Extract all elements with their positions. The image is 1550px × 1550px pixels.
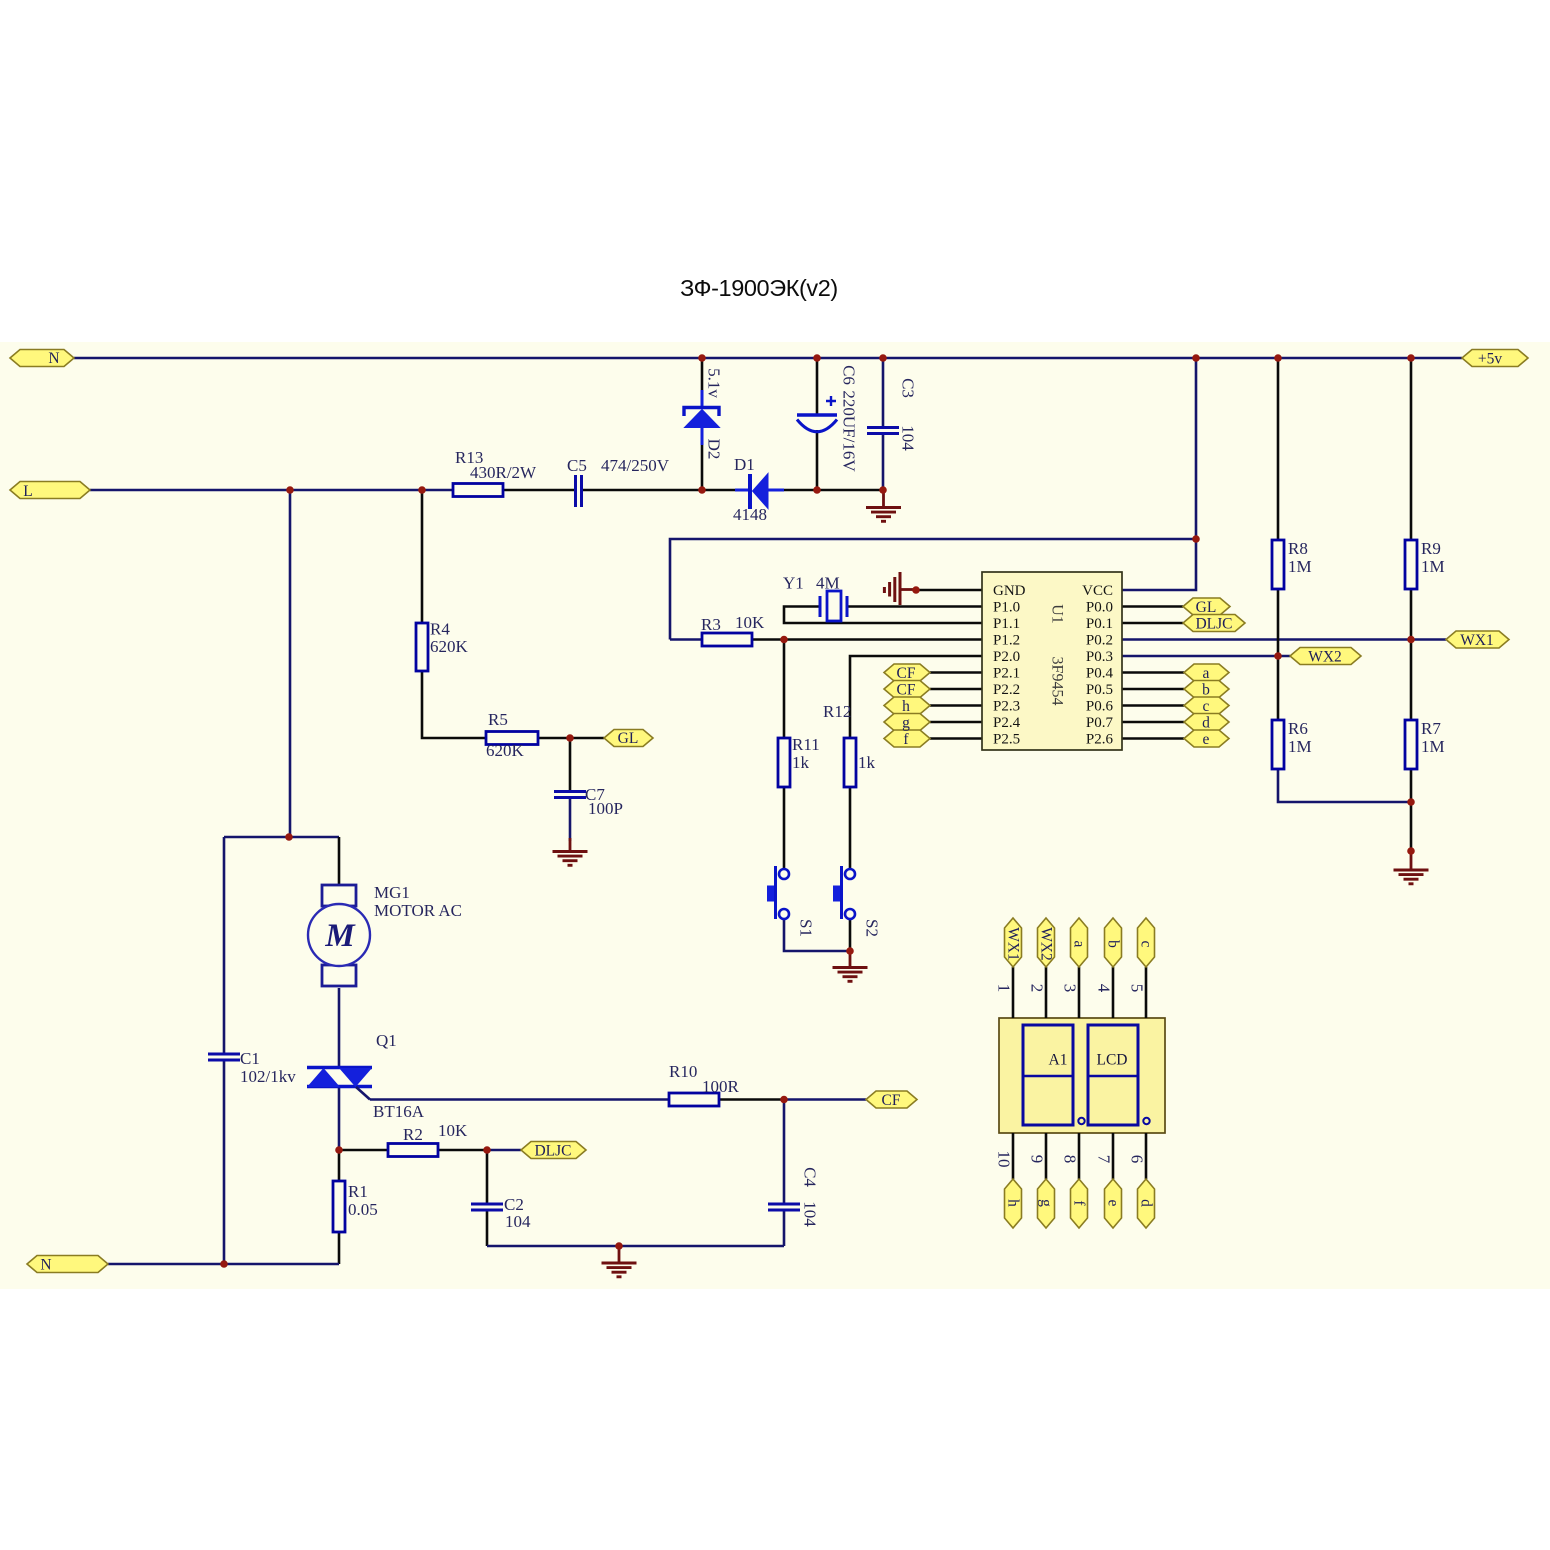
- capacitor C6 polarized: [797, 396, 837, 432]
- svg-text:VCC: VCC: [1082, 583, 1113, 599]
- svg-text:P0.3: P0.3: [1086, 649, 1113, 665]
- junction at R6 R7 bottom: [1407, 798, 1415, 806]
- node d flag: [1184, 714, 1229, 731]
- node WX1 flag: [1446, 631, 1509, 648]
- node b flag: [1184, 681, 1229, 698]
- wire +5v drop to VCC: [1122, 358, 1196, 590]
- node GL flag left: [604, 730, 653, 747]
- svg-text:P0.5: P0.5: [1086, 682, 1113, 698]
- node f flag left: [884, 730, 930, 747]
- junction on L rail at motor branch: [286, 486, 294, 494]
- svg-text:a: a: [1203, 665, 1210, 682]
- svg-text:MOTOR AC: MOTOR AC: [374, 901, 462, 920]
- junction at triac R2 node: [335, 1146, 343, 1154]
- svg-text:5.1v: 5.1v: [705, 368, 724, 398]
- svg-text:+5v: +5v: [1478, 351, 1502, 368]
- label R1: [348, 1182, 378, 1219]
- wire R3 to P1.2: [752, 638, 982, 641]
- node GL flag right: [1183, 598, 1230, 615]
- wire N bottom line: [108, 1263, 339, 1266]
- pin number 10 rotated: [995, 1151, 1014, 1168]
- wire f stub: [930, 737, 982, 740]
- node f flag bottom of LCD: [1071, 1179, 1088, 1228]
- svg-text:c: c: [1138, 941, 1155, 948]
- svg-text:P1.2: P1.2: [993, 633, 1020, 649]
- svg-text:WX2: WX2: [1308, 649, 1342, 666]
- svg-text:10K: 10K: [438, 1121, 468, 1140]
- wire d stub: [1122, 721, 1184, 724]
- svg-text:104: 104: [899, 425, 918, 451]
- wire R8 column: [1277, 358, 1280, 720]
- wire L down to motor branch: [289, 490, 292, 837]
- svg-text:g: g: [902, 715, 910, 732]
- svg-text:M: M: [324, 918, 356, 954]
- node h flag bottom of LCD: [1005, 1179, 1022, 1228]
- wire node to R1: [338, 1150, 341, 1181]
- svg-text:1M: 1M: [1421, 557, 1445, 576]
- label A1: [1049, 1052, 1068, 1069]
- svg-text:R11: R11: [792, 735, 820, 754]
- svg-text:f: f: [1071, 1200, 1088, 1206]
- node h flag left: [884, 697, 930, 714]
- wire triac gate to R10: [370, 1098, 669, 1101]
- svg-text:e: e: [1203, 731, 1210, 748]
- svg-text:5: 5: [1128, 984, 1147, 993]
- node g flag bottom of LCD: [1038, 1179, 1055, 1228]
- ground under R7: [1394, 851, 1429, 884]
- svg-text:U1: U1: [1049, 604, 1066, 624]
- wire C5 to D1 node: [583, 489, 748, 492]
- resistor R5: [486, 732, 538, 745]
- svg-text:R3: R3: [701, 615, 721, 634]
- flag texts horizontal: [23, 350, 1502, 1274]
- label R5: [486, 710, 525, 760]
- svg-text:102/1kv: 102/1kv: [240, 1067, 296, 1086]
- svg-text:4: 4: [1095, 984, 1114, 993]
- svg-text:3: 3: [1061, 984, 1080, 993]
- ground under C7: [553, 838, 588, 865]
- svg-text:4148: 4148: [733, 505, 767, 524]
- junction at GL C7 node: [566, 734, 574, 742]
- svg-text:C3: C3: [899, 378, 918, 398]
- svg-text:100R: 100R: [702, 1077, 740, 1096]
- svg-text:100P: 100P: [588, 799, 623, 818]
- capacitor C4: [768, 1204, 800, 1210]
- U1 value 3F9454 rotated: [1049, 657, 1066, 706]
- wire h stub: [930, 704, 982, 707]
- wire R11 to S1: [783, 787, 786, 868]
- wire motor to triac: [338, 988, 341, 1066]
- svg-text:C4: C4: [801, 1167, 820, 1187]
- wire a stub: [1122, 671, 1184, 674]
- label Q1: [373, 1031, 425, 1121]
- node WX2 flag top of LCD: [1038, 918, 1055, 967]
- wire CF stub upper: [930, 671, 982, 674]
- capacitor C1: [208, 1054, 240, 1060]
- svg-text:2: 2: [1028, 984, 1047, 993]
- svg-text:R2: R2: [403, 1125, 423, 1144]
- junction at R3 R11 node: [780, 636, 788, 644]
- label D2 rotated: [705, 368, 724, 459]
- svg-text:104: 104: [801, 1201, 820, 1227]
- capacitor C2: [471, 1204, 503, 1210]
- svg-text:1M: 1M: [1288, 737, 1312, 756]
- wire GND pin: [916, 589, 982, 592]
- wire R4 to R5: [422, 671, 486, 738]
- junction at motor branch top: [285, 833, 293, 841]
- label C1: [240, 1049, 296, 1086]
- junction on N rail at R8: [1274, 354, 1282, 362]
- node CF flag at P2.2: [884, 681, 930, 698]
- label R9: [1421, 539, 1445, 576]
- label S1 rotated: [797, 919, 816, 937]
- junction at C2 DLJC node: [483, 1146, 491, 1154]
- svg-text:9: 9: [1028, 1155, 1047, 1164]
- label C4 rotated: [801, 1167, 820, 1227]
- wire L rail: [90, 489, 453, 492]
- svg-text:b: b: [1202, 682, 1210, 699]
- svg-text:3F9454: 3F9454: [1049, 657, 1066, 706]
- svg-text:P2.0: P2.0: [993, 649, 1020, 665]
- svg-text:4M: 4M: [816, 574, 840, 593]
- svg-text:R5: R5: [488, 710, 508, 729]
- junction on L rail at R4: [418, 486, 426, 494]
- node DLJC flag right: [1183, 615, 1245, 632]
- wire P0.3 to WX2: [1122, 655, 1290, 658]
- svg-text:R1: R1: [348, 1182, 368, 1201]
- wire C1 branch: [223, 837, 226, 1264]
- svg-text:P1.1: P1.1: [993, 616, 1020, 632]
- wire D2 vertical branch: [701, 358, 704, 490]
- label R7: [1421, 719, 1445, 756]
- svg-text:C6: C6: [840, 365, 859, 385]
- svg-text:GND: GND: [993, 583, 1026, 599]
- junction at bottom ground: [615, 1242, 623, 1250]
- svg-text:P0.1: P0.1: [1086, 616, 1113, 632]
- wire R12 to S2: [849, 787, 852, 868]
- svg-text:P2.3: P2.3: [993, 699, 1020, 715]
- svg-text:R4: R4: [430, 620, 450, 639]
- svg-text:GL: GL: [1196, 599, 1217, 616]
- wire g stub: [930, 721, 982, 724]
- node e flag bottom of LCD: [1105, 1179, 1122, 1228]
- resistor R8: [1272, 540, 1284, 589]
- svg-text:1k: 1k: [792, 753, 810, 772]
- svg-text:220UF/16V: 220UF/16V: [840, 390, 859, 472]
- svg-text:1M: 1M: [1421, 737, 1445, 756]
- svg-text:430R/2W: 430R/2W: [470, 463, 537, 482]
- svg-text:CF: CF: [897, 665, 916, 682]
- label R12: [823, 702, 876, 772]
- wire crystal right to P1.0: [847, 605, 982, 608]
- wire CF stub lower: [930, 688, 982, 691]
- svg-text:P2.1: P2.1: [993, 666, 1020, 682]
- svg-text:8: 8: [1061, 1155, 1080, 1164]
- svg-text:h: h: [902, 698, 910, 715]
- ground at GND pin rotated: [884, 572, 916, 605]
- svg-text:C5: C5: [567, 456, 587, 475]
- label R10: [669, 1062, 740, 1096]
- resistor R11: [778, 738, 790, 787]
- node c flag: [1184, 697, 1229, 714]
- svg-text:P2.6: P2.6: [1086, 732, 1114, 748]
- wire R13 to C5: [503, 489, 574, 492]
- pin number 2 rotated: [1028, 984, 1047, 993]
- svg-text:b: b: [1105, 940, 1122, 948]
- svg-text:S1: S1: [797, 919, 816, 937]
- label LCD: [1097, 1052, 1128, 1069]
- wire C2 vertical: [486, 1150, 489, 1246]
- resistor R9: [1405, 540, 1417, 589]
- svg-text:P2.4: P2.4: [993, 715, 1021, 731]
- capacitor C5: [576, 475, 582, 507]
- svg-text:474/250V: 474/250V: [601, 456, 670, 475]
- wire R1 to N line: [338, 1232, 341, 1264]
- svg-text:7: 7: [1095, 1155, 1114, 1164]
- label C6 rotated: [840, 365, 859, 472]
- ground under S1 S2: [833, 951, 868, 981]
- wire C3 branch: [882, 358, 885, 490]
- svg-text:C1: C1: [240, 1049, 260, 1068]
- wire c stub: [1122, 704, 1184, 707]
- wire R6 bottom: [1278, 769, 1411, 802]
- wire R7 bottom: [1410, 769, 1413, 851]
- title: [680, 275, 838, 301]
- pin number 8 rotated: [1061, 1155, 1080, 1164]
- svg-text:R12: R12: [823, 702, 851, 721]
- svg-text:1k: 1k: [858, 753, 876, 772]
- wire crystal left to P1.1: [784, 607, 982, 624]
- resistor R4: [416, 623, 428, 671]
- svg-text:ЗФ-1900ЭК(v2): ЗФ-1900ЭК(v2): [680, 275, 838, 301]
- svg-text:10: 10: [995, 1151, 1014, 1168]
- resistor R3: [702, 633, 752, 646]
- svg-text:DLJC: DLJC: [1195, 616, 1232, 633]
- pin number 5 rotated: [1128, 984, 1147, 993]
- switch S2: [833, 866, 855, 919]
- svg-text:BT16A: BT16A: [373, 1102, 425, 1121]
- node a flag top of LCD: [1071, 918, 1088, 967]
- capacitor C7: [554, 792, 586, 798]
- wire P2.0 to R12: [850, 656, 982, 738]
- svg-text:P2.5: P2.5: [993, 732, 1020, 748]
- svg-text:GL: GL: [618, 730, 639, 747]
- node DLJC flag bottom: [521, 1142, 586, 1159]
- svg-text:R8: R8: [1288, 539, 1308, 558]
- label R2: [403, 1121, 468, 1144]
- svg-text:LCD: LCD: [1097, 1052, 1128, 1069]
- diode D2 zener: [684, 390, 720, 445]
- label C5: [567, 456, 670, 475]
- svg-text:WX1: WX1: [1460, 632, 1494, 649]
- resistor R1: [333, 1181, 345, 1232]
- svg-text:Q1: Q1: [376, 1031, 397, 1050]
- svg-text:CF: CF: [882, 1092, 901, 1109]
- motor MG1: [308, 885, 370, 986]
- svg-text:WX1: WX1: [1005, 927, 1022, 961]
- node a flag: [1184, 664, 1229, 681]
- label C3 rotated: [899, 378, 918, 451]
- LCD top pin wires 1-5: [1013, 967, 1146, 1018]
- label R4: [430, 620, 469, 657]
- wire node to CF flag: [784, 1098, 866, 1101]
- wire motor branch top: [224, 837, 339, 885]
- wire triac to R2 node: [338, 1088, 341, 1150]
- svg-text:10K: 10K: [735, 613, 765, 632]
- svg-text:a: a: [1071, 941, 1088, 948]
- node WX1 flag top of LCD: [1005, 918, 1022, 967]
- wire C4 vertical: [783, 1100, 786, 1247]
- wire GL stub: [1122, 605, 1183, 608]
- svg-text:N: N: [40, 1257, 51, 1274]
- svg-text:104: 104: [505, 1212, 531, 1231]
- svg-text:0.05: 0.05: [348, 1200, 378, 1219]
- svg-text:R9: R9: [1421, 539, 1441, 558]
- label R11: [792, 735, 820, 772]
- junction at WX1 node: [1407, 636, 1415, 644]
- ground under C3: [866, 490, 901, 521]
- svg-text:D2: D2: [705, 439, 724, 460]
- label R13: [455, 448, 537, 482]
- svg-text:d: d: [1138, 1199, 1155, 1207]
- label C7: [585, 785, 623, 818]
- junction node at C6 bottom: [813, 486, 821, 494]
- resistor R6: [1272, 720, 1284, 769]
- svg-text:1: 1: [995, 984, 1014, 993]
- svg-text:Y1: Y1: [783, 574, 804, 593]
- wire S2 to ground node: [849, 920, 852, 951]
- U1 pin names right: [1082, 583, 1113, 748]
- wire R5 to GL flag: [538, 737, 604, 740]
- node +5v flag: [1462, 350, 1528, 367]
- node N top flag: [10, 350, 74, 367]
- node N bottom flag: [27, 1256, 108, 1273]
- wire R9 column: [1410, 358, 1413, 720]
- label R6: [1288, 719, 1312, 756]
- wire R3 top loop: [670, 539, 1196, 640]
- junction at GND pin node: [912, 586, 920, 594]
- LCD bottom pin wires 10-6: [1013, 1133, 1146, 1179]
- node b flag top of LCD: [1105, 918, 1122, 967]
- svg-text:d: d: [1202, 715, 1210, 732]
- switch S1: [767, 866, 789, 919]
- junction on N bottom line: [220, 1260, 228, 1268]
- svg-text:P2.2: P2.2: [993, 682, 1020, 698]
- junction at S ground node: [846, 947, 854, 955]
- pin number 1 rotated: [995, 984, 1014, 993]
- wire DLJC stub: [1122, 622, 1183, 625]
- junction at R7 ground stem: [1407, 847, 1415, 855]
- svg-text:6: 6: [1128, 1155, 1147, 1164]
- LCD digit LCD: [1088, 1025, 1150, 1125]
- wire R10 to node: [719, 1098, 784, 1101]
- svg-text:P1.0: P1.0: [993, 600, 1020, 616]
- U1 pin names left: [993, 583, 1026, 748]
- svg-text:P0.2: P0.2: [1086, 633, 1113, 649]
- junction on N rail at R9: [1407, 354, 1415, 362]
- junction node at D2 bottom: [698, 486, 706, 494]
- wire node to C7: [569, 738, 572, 790]
- svg-text:f: f: [903, 731, 909, 748]
- svg-text:MG1: MG1: [374, 883, 410, 902]
- LCD digit A1: [1023, 1025, 1085, 1125]
- node g flag left: [884, 714, 930, 731]
- svg-text:620K: 620K: [486, 741, 525, 760]
- wire N rail: [74, 357, 1462, 360]
- wire node to R11: [783, 640, 786, 739]
- junction at WX2 node: [1274, 652, 1282, 660]
- node d flag bottom of LCD: [1138, 1179, 1155, 1228]
- svg-text:A1: A1: [1049, 1052, 1068, 1069]
- resistor R10: [669, 1093, 719, 1106]
- svg-text:e: e: [1105, 1200, 1122, 1207]
- node CF flag at P2.1: [884, 664, 930, 681]
- svg-text:R6: R6: [1288, 719, 1308, 738]
- LCD module A1 box: [999, 1018, 1165, 1133]
- resistor R2: [388, 1144, 438, 1157]
- svg-text:P0.4: P0.4: [1086, 666, 1114, 682]
- node e flag: [1184, 730, 1229, 747]
- flag texts vertical top: [1005, 927, 1155, 961]
- svg-text:D1: D1: [734, 455, 755, 474]
- svg-text:g: g: [1038, 1199, 1055, 1207]
- crystal Y1: [820, 591, 847, 621]
- diode D1: [735, 474, 784, 510]
- pin number 9 rotated: [1028, 1155, 1047, 1164]
- svg-text:L: L: [23, 483, 32, 500]
- label Y1: [783, 574, 840, 593]
- wire C2 to C4 ground line: [487, 1245, 784, 1248]
- wire R3 left stub: [670, 638, 702, 641]
- svg-text:620K: 620K: [430, 637, 469, 656]
- node CF flag bottom: [866, 1091, 917, 1108]
- node L flag: [10, 482, 90, 499]
- label S2 rotated: [863, 919, 882, 937]
- svg-text:DLJC: DLJC: [534, 1143, 571, 1160]
- resistor R7: [1405, 720, 1417, 769]
- junction on N rail at VCC drop: [1192, 354, 1200, 362]
- svg-text:P0.6: P0.6: [1086, 699, 1114, 715]
- wire e stub: [1122, 737, 1184, 740]
- svg-text:S2: S2: [863, 919, 882, 937]
- node WX2 flag: [1290, 648, 1361, 665]
- node c flag top of LCD: [1138, 918, 1155, 967]
- svg-text:R10: R10: [669, 1062, 697, 1081]
- wire node to DLJC flag: [487, 1149, 521, 1152]
- svg-text:P0.7: P0.7: [1086, 715, 1114, 731]
- svg-text:P0.0: P0.0: [1086, 600, 1113, 616]
- junction at R10 C4 node: [780, 1096, 788, 1104]
- label R8: [1288, 539, 1312, 576]
- label R3: [701, 613, 765, 634]
- junction node at C3 bottom: [879, 486, 887, 494]
- ground on C2 C4 line: [602, 1246, 637, 1277]
- junction on N rail at D2: [698, 354, 706, 362]
- label C2: [504, 1195, 531, 1231]
- pin number 4 rotated: [1095, 984, 1114, 993]
- svg-text:WX2: WX2: [1038, 927, 1055, 961]
- svg-text:1M: 1M: [1288, 557, 1312, 576]
- wire C6 branch: [816, 358, 819, 490]
- svg-text:h: h: [1005, 1199, 1022, 1207]
- junction on N rail at C3: [879, 354, 887, 362]
- pin number 6 rotated: [1128, 1155, 1147, 1164]
- wire C7 to ground: [569, 799, 572, 841]
- wire R2 row: [339, 1149, 487, 1152]
- svg-text:R7: R7: [1421, 719, 1441, 738]
- svg-text:CF: CF: [897, 682, 916, 699]
- resistor R12: [844, 738, 856, 787]
